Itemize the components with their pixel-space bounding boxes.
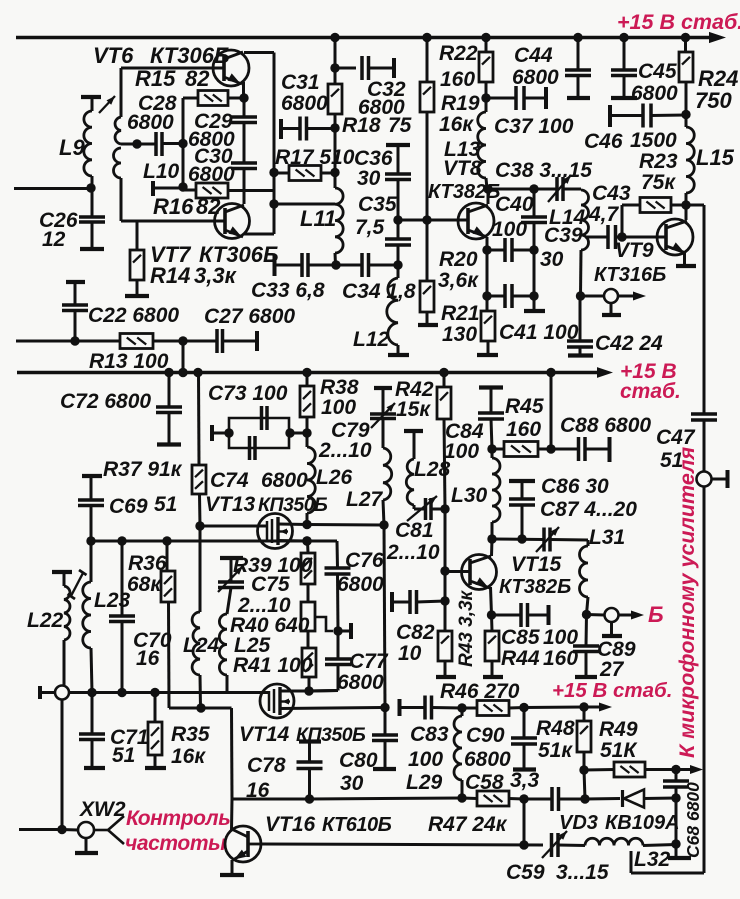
svg-text:L24: L24 [183, 634, 220, 657]
wire L14 tap to C43 [585, 236, 608, 239]
wire VT9 collector lead [685, 205, 688, 220]
svg-text:XW2: XW2 [79, 798, 126, 821]
svg-text:С47: С47 [656, 426, 696, 449]
wire C83 right lead [432, 706, 463, 710]
node R37/bus [193, 368, 202, 377]
wire left stub to L9 [14, 187, 91, 190]
svg-text:С39: С39 [544, 224, 583, 247]
terminal bar above L22 [52, 570, 72, 574]
node L32/C68 [671, 839, 680, 848]
wire C39 top lead [533, 189, 536, 217]
svg-text:R36: R36 [128, 552, 167, 575]
wire L22 top lead [63, 572, 66, 586]
transistor VT16 [225, 826, 261, 862]
node C86/y539 [517, 534, 526, 543]
wire Б stem [610, 622, 613, 635]
wire tap node bar [338, 630, 350, 633]
wire L31 bottom lead [587, 597, 589, 614]
node L23/y692 [87, 688, 96, 697]
wire bus to R38 [306, 373, 309, 387]
wire R36 bend to L24 node [169, 707, 201, 710]
wire C41 right lead [512, 295, 534, 298]
svg-text:82: 82 [196, 194, 221, 219]
inductor L24 [192, 612, 200, 675]
wire border bottom [631, 872, 704, 875]
node C76/C77/tap [333, 626, 342, 635]
wire y692 to C71 [91, 693, 94, 735]
inductor L9 [84, 111, 92, 176]
svg-text:30: 30 [540, 248, 564, 271]
wire R40 to R41 [307, 631, 310, 648]
capacitor C27 [217, 329, 223, 353]
node VD3/C68 [671, 793, 680, 802]
wire C77 bottom stem [337, 665, 340, 691]
connector antenna circle [697, 472, 712, 487]
terminal bar below R43 [436, 675, 456, 679]
wire VT7 base drop to R14 [136, 221, 139, 250]
svg-text:75: 75 [388, 114, 412, 137]
capacitor C45 [611, 70, 637, 76]
terminal bar above C75 [220, 556, 243, 560]
wire C46 right lead [651, 114, 686, 118]
svg-text:130: 130 [442, 323, 477, 346]
svg-text:L27: L27 [346, 488, 384, 511]
wire L15 top lead [685, 114, 688, 127]
wire rail to C44 [577, 38, 580, 71]
wire C73 node to L26 [306, 433, 309, 447]
svg-text:R17 510: R17 510 [275, 146, 355, 169]
wire y189 to C38 [488, 188, 556, 191]
wire R48 node down [584, 770, 585, 799]
node VT15 emitter/C85 [487, 610, 496, 619]
resistor R23 [640, 198, 671, 213]
inductor L12 [387, 278, 398, 345]
wire C89 bottom lead [585, 652, 588, 677]
node L11/C33/C34 [331, 260, 340, 269]
svg-text:С73 100: С73 100 [208, 382, 288, 405]
wire L9 to C26 [91, 188, 94, 217]
wire L29 node to R46 [462, 707, 477, 710]
wire C27 right lead [223, 340, 257, 343]
capacitor C90 [511, 738, 537, 744]
capacitor C42 [567, 341, 593, 347]
wire C90 node to R48 node [524, 706, 584, 710]
resistor R21 [481, 311, 495, 341]
svg-text:С69: С69 [109, 495, 148, 518]
adjust arrow C79 [371, 403, 395, 428]
capacitor C43 [608, 225, 616, 249]
wire C22 y341 left stub [16, 340, 120, 343]
wire R14 bottom lead [136, 280, 139, 295]
wire VT13 drain to L27 node [307, 523, 384, 527]
wire R23 left leg [621, 205, 624, 237]
terminal bar above C84 [479, 385, 503, 389]
arrow +15 bottom [599, 703, 612, 712]
wire rail to R22 [485, 38, 488, 53]
wire rail to C45 [623, 38, 626, 71]
svg-text:С81: С81 [395, 519, 434, 542]
wire C43 to VT9 base [616, 236, 667, 239]
inductor L23 [83, 582, 91, 648]
wire R36 below [167, 602, 171, 708]
node rail/R24 [681, 33, 690, 42]
wire C83 left lead [400, 706, 425, 709]
svg-text:L30: L30 [451, 484, 488, 507]
svg-text:С45: С45 [638, 60, 677, 83]
node C43/R23 feedback [617, 232, 626, 241]
svg-text:L22: L22 [27, 609, 64, 632]
svg-text:L26: L26 [316, 466, 353, 489]
wire C37 node to L13 [485, 98, 488, 112]
wire VT6 collector drop x274 [273, 53, 276, 235]
capacitor C88 [579, 437, 586, 461]
arrow into border [690, 765, 703, 774]
wire y692 gate wire [69, 691, 269, 694]
capacitor C71 [79, 734, 105, 740]
wire L25 bottom lead [226, 675, 229, 693]
node R38/C73/L26 [302, 428, 311, 437]
capacitor C59 (trimmer) [552, 833, 559, 857]
diode VD3 [621, 790, 624, 807]
wire C70 top lead [121, 541, 124, 616]
wire R17 to x335 [321, 172, 335, 175]
svg-text:R20: R20 [439, 248, 478, 271]
node R23/L15/VT9 [681, 200, 690, 209]
svg-text:16к: 16к [439, 113, 474, 136]
node loop left [224, 428, 233, 437]
wire emitter node to R21 [486, 296, 489, 311]
resistor R20 [420, 281, 434, 312]
svg-text:С43: С43 [592, 182, 631, 205]
capacitor C38 (trimmer) [557, 177, 563, 201]
wire bus to C72 [168, 373, 171, 408]
svg-text:VT6: VT6 [93, 43, 134, 68]
svg-text:3...15: 3...15 [556, 861, 609, 884]
terminal bar above C79 [374, 386, 392, 390]
capacitor C69 [78, 500, 104, 506]
wire y692 to R35 [154, 693, 157, 723]
terminal bar VT9 emitter [676, 264, 696, 268]
node L14/output [576, 291, 585, 300]
svg-text:2...10: 2...10 [318, 439, 372, 462]
resistor R49 [614, 762, 645, 777]
terminal bar output [602, 313, 621, 317]
capacitor C70 [109, 616, 135, 622]
wire base node to C82 node [444, 571, 447, 601]
wire L13 bottom lead [486, 178, 487, 189]
terminal bar above C69 [82, 474, 102, 478]
capacitor C36 [385, 174, 411, 180]
wire C28 to x183 line [162, 142, 183, 145]
node C34/C35/L12 [393, 260, 402, 269]
wire VD3 left lead [585, 797, 620, 801]
svg-text:КТ610Б: КТ610Б [322, 814, 392, 836]
capacitor C74 (bottom of loop) [250, 436, 256, 460]
node R19/R20/VT8 base [422, 215, 431, 224]
node L29/y799 [457, 793, 466, 802]
resistor R41 [302, 648, 316, 677]
node x274/L11 tap [269, 199, 278, 208]
wire y541 corner to C76 [307, 540, 337, 543]
wire VT6 emitter lead [242, 82, 245, 98]
wire C34 left lead [336, 264, 362, 267]
wire C45 bottom lead [623, 76, 626, 98]
wire C80 bottom lead [384, 741, 387, 769]
svg-text:КТ316Б: КТ316Б [594, 264, 666, 286]
capacitor C80 [372, 735, 398, 741]
terminal bar below XW2 [75, 851, 98, 855]
node C40/x534 [529, 245, 538, 254]
svg-text:КВ109А: КВ109А [605, 812, 680, 834]
wire L10 stub [153, 187, 183, 190]
wire C86 stem [521, 482, 524, 499]
node R45/C88 [546, 444, 555, 453]
wire VD3 right lead [644, 797, 676, 801]
node R17/L11 top [330, 168, 339, 177]
inductor L32 [585, 838, 643, 845]
terminal bar C46 left [608, 105, 612, 127]
capacitor C44 [565, 70, 591, 76]
node C84/R45/L30 [487, 444, 496, 453]
wire VT14 source [280, 708, 385, 709]
svg-text:R41 100: R41 100 [233, 654, 313, 677]
wire emitter node to R44 [490, 615, 494, 631]
wire L9 top stub [91, 97, 94, 111]
svg-text:6800: 6800 [464, 748, 511, 771]
svg-text:L23: L23 [94, 589, 131, 612]
svg-text:10: 10 [398, 642, 422, 665]
wire VT7 emitter horizontal [244, 233, 274, 236]
wire C71 bottom lead [91, 740, 94, 768]
svg-text:R14: R14 [150, 263, 190, 288]
wire C73 bar to loop [212, 432, 229, 435]
wire VT13 source to y541 [278, 539, 307, 543]
svg-text:С35: С35 [358, 193, 397, 216]
svg-text:51К: 51К [600, 739, 638, 762]
wire L9 bottom lead [91, 176, 94, 188]
wire y541 to R36 [166, 541, 169, 571]
wire C26 bottom lead [91, 222, 94, 248]
inductor L22 [64, 586, 70, 640]
svg-text:С40: С40 [495, 193, 534, 216]
node C78/y799 [305, 794, 314, 803]
wire C31 left lead [281, 127, 300, 130]
terminal bar below R14 [125, 294, 149, 298]
svg-text:С86 30: С86 30 [541, 475, 609, 498]
wire R44 bottom lead [491, 661, 494, 676]
svg-text:R47 24к: R47 24к [428, 813, 508, 836]
resistor R38 [300, 386, 314, 417]
svg-text:30: 30 [340, 772, 364, 795]
wire x183 to R16 [183, 189, 196, 192]
capacitor C73 (top of loop) [262, 406, 268, 430]
wire C22 bottom stem [74, 311, 77, 342]
node C70/y541 [117, 536, 126, 545]
wire C68 top lead [675, 770, 678, 782]
wire x274 to R17 [274, 172, 289, 175]
svg-text:+15 В стаб.: +15 В стаб. [552, 679, 672, 702]
wire gate node down to L24 [199, 526, 202, 612]
svg-text:Б: Б [648, 602, 664, 627]
svg-text:L12: L12 [353, 328, 390, 351]
node XW2 wire [57, 825, 66, 834]
svg-text:6800: 6800 [631, 82, 678, 105]
wire C76 to tap node [336, 574, 340, 631]
wire emitter to C41 node [486, 250, 489, 296]
svg-text:VT16: VT16 [265, 813, 316, 836]
terminal bar above C78 [299, 739, 321, 743]
wire base node to R20 [426, 220, 429, 281]
wire x534 C40-C41 [533, 250, 536, 296]
wire VT14 drain corner [309, 689, 338, 693]
wire C76 top stem [336, 541, 340, 568]
wire C79 top stem [382, 389, 385, 414]
capacitor C40 [505, 238, 512, 262]
node C28/x183 [178, 139, 187, 148]
wire frame to VT7 base [121, 220, 225, 223]
wire L28 to C81 [413, 505, 416, 509]
svg-text:3,6к: 3,6к [438, 269, 479, 292]
capacitor C81 (trimmer) [426, 498, 432, 520]
node R37/VT13 gate [195, 521, 204, 530]
adjust arrow C81 [407, 496, 437, 521]
terminal bar below C80 [373, 767, 396, 771]
wire L29 node to R47 [462, 797, 477, 801]
svg-text:6800: 6800 [337, 573, 384, 596]
node C35/C36/VT8 base wire [393, 215, 402, 224]
capacitor C78 [297, 762, 323, 769]
svg-text:R46 270: R46 270 [440, 680, 520, 703]
svg-text:С68 6800: С68 6800 [683, 782, 703, 858]
terminal bar below R44 [483, 675, 503, 679]
svg-text:Контроль: Контроль [126, 807, 230, 830]
svg-text:С44: С44 [514, 44, 553, 67]
wire C38 to L14 corner [563, 188, 581, 191]
terminal bar below C72 [157, 442, 181, 446]
wire C85 left lead [492, 614, 521, 617]
wire output y296 [581, 295, 605, 298]
wire C36 to C35 node [397, 180, 400, 221]
resistor R36 [161, 571, 175, 602]
terminal bar C31 left [279, 119, 283, 139]
wire L24 bottom lead [199, 675, 203, 708]
terminal bar C27 right [255, 331, 259, 351]
node x274/R17 [269, 168, 278, 177]
wire L12 bottom lead [397, 345, 400, 354]
inductor L30 [492, 458, 500, 522]
wire frame left vertical lower [120, 178, 123, 221]
node x307/y541 [302, 536, 311, 545]
connector output circle [604, 289, 618, 303]
svg-text:6800: 6800 [281, 92, 328, 115]
resistor R17 [289, 166, 321, 181]
terminal bar below x534 [524, 309, 545, 313]
wire connector tap [712, 478, 727, 481]
wire +15V top rail [16, 36, 712, 40]
wire VT6 base frame top [121, 67, 224, 70]
wire rail to R24 [684, 38, 687, 53]
wire R40 tap [315, 617, 333, 631]
resistor R24 [679, 52, 693, 82]
wire VT9 emitter lead [683, 252, 686, 265]
node VT15 base [440, 566, 449, 575]
svg-text:R22: R22 [439, 42, 478, 65]
terminal bar below C42 [568, 353, 593, 357]
wire C85 right lead [528, 614, 548, 617]
wire XW2 stem [85, 838, 88, 852]
adjust arrow C87 [536, 527, 559, 552]
node L9/C26 junction [86, 183, 95, 192]
wire L10 tap to C28 [121, 143, 156, 146]
terminal bar below C44 [567, 96, 590, 100]
resistor R19 [420, 82, 434, 112]
svg-text:6800: 6800 [127, 111, 174, 134]
wire C75 to L25 [227, 588, 231, 615]
resistor R46 [477, 701, 509, 716]
wire right border lower [703, 487, 706, 874]
wire probe bar to circle [40, 691, 55, 694]
wire border bottom-left up [630, 851, 633, 873]
svg-text:+15 В стаб.: +15 В стаб. [617, 10, 740, 34]
wire VD3 node to L32 node [675, 798, 678, 844]
svg-text:R19: R19 [441, 92, 480, 115]
svg-text:16к: 16к [171, 745, 206, 768]
wire C81 node to VT15 base node [444, 509, 447, 571]
svg-text:3,3: 3,3 [510, 769, 540, 792]
terminal bar below C71 [84, 766, 105, 770]
node C83/R46/L29 [457, 703, 466, 712]
svg-text:R37 91к: R37 91к [103, 458, 183, 481]
arrow +15V bus [597, 367, 613, 378]
wire C32 node to R18 [334, 68, 337, 84]
wire VT8 base horizontal [398, 219, 468, 222]
wire C90 bottom lead [523, 744, 526, 768]
wire bus to R42 [443, 373, 446, 388]
node L13/VT8 collector [483, 184, 492, 193]
wire R43 bottom lead [444, 661, 447, 676]
terminal bar C32 right [392, 58, 396, 78]
wire C44 bottom lead [577, 76, 580, 98]
wire C39 bottom lead [533, 223, 536, 251]
transistor VT7 [215, 204, 250, 239]
terminal bar below C68 [668, 856, 691, 860]
wire C82 node to R43 [444, 601, 447, 631]
node C22/y341 [70, 336, 79, 345]
wire C32 right lead [369, 67, 395, 70]
svg-text:С76: С76 [345, 549, 384, 572]
svg-text:100: 100 [321, 396, 356, 419]
wire L30 bottom lead [491, 522, 494, 539]
terminal bar above C36 [386, 143, 410, 147]
wire link R13 bus [182, 341, 185, 373]
wire VT8 collector lead [487, 189, 490, 204]
wire C86 to y539 [521, 505, 524, 539]
svg-text:С38 3...15: С38 3...15 [495, 159, 592, 182]
wire L29 top lead [461, 708, 464, 716]
node R48/VD3 wire [580, 794, 589, 803]
svg-text:С83: С83 [410, 723, 449, 746]
capacitor C76 [325, 568, 351, 574]
svg-text:С22 6800: С22 6800 [88, 304, 179, 327]
svg-text:R45: R45 [505, 395, 544, 418]
terminal bar above C22 [66, 280, 85, 284]
svg-text:VD3: VD3 [559, 812, 598, 834]
svg-text:750: 750 [695, 88, 732, 113]
wire L27 node down to VT14 source node [384, 525, 385, 707]
wire VT8 emitter lead [486, 237, 489, 250]
terminal bar left of probe [38, 686, 42, 699]
svg-text:С27 6800: С27 6800 [204, 305, 295, 328]
